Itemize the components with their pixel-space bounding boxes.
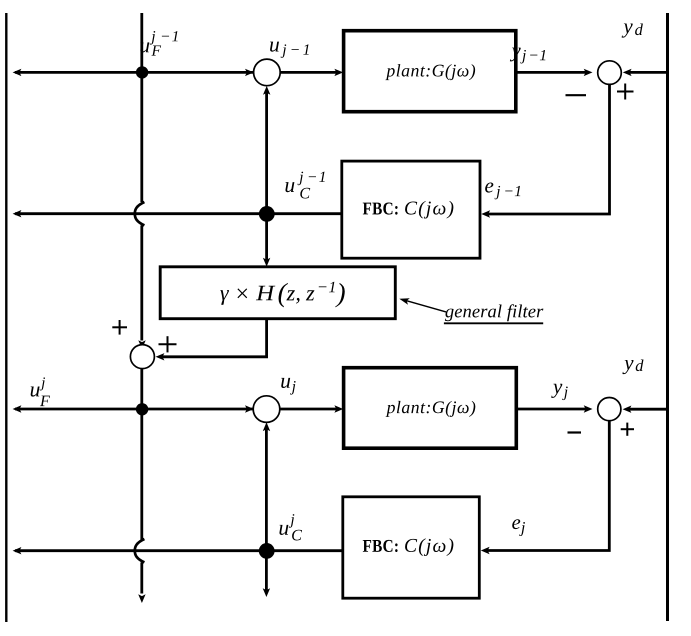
wire memory line bottom segment (140, 562, 143, 593)
arrowhead y_(j-1) into summer S2 (584, 69, 593, 76)
label e_(j-1) (485, 183, 520, 200)
label plus sign upper-left of S3 (112, 320, 127, 335)
wire u_F^j line to left edge (15, 408, 255, 411)
label plus sign upper-right of S3 (159, 336, 177, 352)
arrowhead left end of u_F^j line (13, 405, 22, 412)
label e_j (512, 519, 525, 536)
label plant:G(jw) in P1 (385, 64, 475, 80)
wire S4 output to plant P2 (280, 408, 339, 411)
wire memory line upper segment (140, 13, 143, 202)
arrowhead e_j into FBC2 right (481, 547, 490, 554)
arrowhead y_d into S5 right (623, 406, 632, 413)
summer S4 for u_j (253, 396, 280, 423)
arrowhead left end of u_C^j line (13, 547, 22, 554)
wire y_d stub into S2 (629, 71, 668, 74)
node u_C(j-1) junction dot (259, 206, 275, 222)
wire memory line into summer S3 (140, 225, 143, 340)
arrowhead annotation into filter box (399, 298, 410, 305)
arrowhead into summer S1 left (245, 69, 254, 76)
arrowhead memory line bottom end (138, 594, 145, 603)
wire y_d stub into S5 (628, 408, 667, 411)
label gamma x H(z, z^-1) (220, 282, 344, 308)
annotation pointer line to general filter label (403, 300, 447, 312)
arrowhead y_j into summer S5 (584, 405, 593, 412)
controller block FBC2 (343, 497, 480, 598)
label minus at S2 (566, 94, 587, 96)
label FBC: C(jw) in FBC1 (363, 201, 454, 219)
label y_d lower (622, 360, 643, 375)
label minus at S5 (568, 431, 582, 433)
wire u_C^j line from FBC2 to left edge (15, 549, 343, 552)
summer S3 plus junction (130, 345, 154, 369)
wire plant P1 output y_(j-1) (516, 71, 587, 74)
label u_(j-1) (270, 42, 309, 58)
arrowhead into plant P1 (334, 69, 343, 76)
arrowhead up into S1 bottom (263, 86, 270, 95)
summer S5 error junction j (598, 398, 621, 421)
arrowhead left end of u_F(j-1) line (13, 69, 22, 76)
node u_C^j junction dot (259, 543, 275, 559)
label u_F^(j-1) (140, 31, 177, 56)
wire u_C(j-1) node up to S1 and down to filter (265, 91, 268, 262)
controller block FBC1 (342, 161, 480, 258)
arrowhead into summer S4 left (245, 405, 254, 412)
wire S2 output down and left into FBC1 (488, 84, 610, 214)
label u_j (281, 378, 295, 395)
wire u_C(j-1) line from FBC1 to left edge (15, 212, 342, 215)
line-hop where memory line crosses u_C(j-1) line (135, 202, 145, 225)
plant block P2 (344, 368, 517, 449)
arrowhead y_d into S2 right (623, 69, 632, 76)
label plant:G(jw) in P2 (386, 401, 476, 417)
arrowhead left end of u_C(j-1) line (13, 210, 22, 217)
plant block P1 (344, 31, 516, 112)
node u_F(j-1) junction dot (136, 66, 148, 78)
arrowhead filter output into S3 right (156, 353, 165, 360)
label general filter (445, 304, 543, 321)
label plus at S5 (621, 423, 634, 436)
label y_d upper (622, 23, 643, 37)
arrowhead into plant P2 (334, 405, 343, 412)
filter block gamma x H (160, 267, 395, 319)
arrowhead up into S4 bottom (263, 422, 270, 431)
wire plant P2 output y_j (516, 408, 587, 411)
summer S1 for u_(j-1) (254, 59, 281, 86)
label plus at S2 (617, 84, 634, 100)
line-hop where memory line crosses u_C^j line (135, 539, 145, 562)
underline of general filter label (444, 322, 543, 324)
wire right y_d supply line (666, 13, 669, 621)
label u_C^(j-1) (285, 172, 324, 199)
arrowhead into summer S3 top (138, 340, 145, 349)
label u_F^j (31, 377, 50, 406)
wire summer S3 output down to node u_F^j (140, 368, 143, 540)
label FBC: C(jw) in FBC2 (363, 538, 454, 556)
label u_C^j (279, 514, 302, 540)
label y_j (551, 384, 567, 400)
wire S5 output down and left into FBC2 (488, 421, 610, 551)
arrowhead down into filter top (263, 258, 270, 267)
wire u_F(j-1) line to left edge (15, 71, 255, 74)
node u_F^j junction dot (136, 403, 148, 415)
summer S2 error junction j-1 (598, 61, 622, 85)
label y_(j-1) (510, 48, 545, 64)
wire S1 output to plant P1 (280, 71, 338, 74)
arrowhead e_(j-1) into FBC1 right (481, 210, 490, 217)
wire filter output elbow into S3 (162, 319, 267, 357)
wire left boundary line (5, 13, 7, 622)
wire u_C^j node up to S4 and down (265, 427, 268, 592)
arrowhead u_C^j line bottom end (263, 588, 270, 597)
